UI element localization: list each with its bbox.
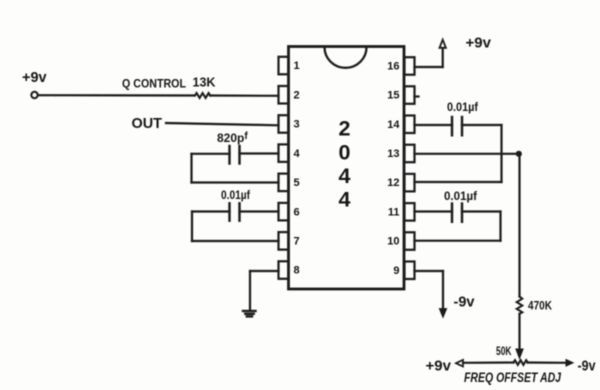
svg-text:1: 1	[294, 60, 300, 72]
node +9V input terminal circle	[31, 92, 37, 98]
wire pin 16 to +9V rail	[415, 66, 443, 68]
pin 11 box	[405, 203, 415, 221]
svg-text:0.01µf: 0.01µf	[447, 102, 478, 114]
wire OUT to pin 3	[166, 123, 279, 125]
U1 value label 2044	[339, 117, 351, 212]
pin 5 box	[279, 174, 289, 192]
wire resistor R2 to wiper arrow	[518, 314, 520, 350]
svg-text:4: 4	[339, 188, 351, 212]
svg-text:15: 15	[387, 90, 399, 102]
svg-text:Q CONTROL: Q CONTROL	[122, 77, 186, 91]
svg-text:13: 13	[387, 148, 399, 160]
arrow head -9V (filled, down)	[439, 309, 446, 318]
pin 3 box	[279, 115, 289, 133]
wire +9v arrow to potentiometer R3	[463, 361, 514, 363]
arrow head right (filled) at -9v	[566, 360, 573, 367]
pin 10 box	[405, 232, 415, 250]
svg-text:470K: 470K	[528, 299, 552, 313]
svg-text:820pf: 820pf	[217, 131, 248, 145]
wire C1 left leg down	[190, 154, 192, 183]
svg-text:9: 9	[393, 265, 399, 277]
wire pin 14 to capacitor C3	[415, 124, 453, 126]
wire pin 8 toward ground	[250, 270, 279, 272]
wire pin 4 to capacitor C1	[240, 152, 279, 154]
pin 15 box	[405, 86, 415, 104]
potentiometer R3 50K body	[514, 360, 528, 365]
wire capacitor C1 to left leg	[192, 153, 230, 155]
wire pin 9 to -9V drop	[415, 270, 444, 272]
svg-text:16: 16	[387, 61, 399, 73]
capacitor C4 0.01uf	[452, 204, 462, 222]
IC U1 2044 body	[289, 47, 405, 290]
svg-text:13K: 13K	[193, 76, 216, 90]
arrow head +9V (open, up)	[440, 40, 446, 48]
capacitor C1 820pf	[230, 146, 240, 164]
pin 9 box	[405, 262, 415, 280]
svg-text:0.01µf: 0.01µf	[444, 191, 477, 203]
svg-text:-9v: -9v	[578, 358, 597, 375]
pin 8 box	[279, 261, 289, 279]
svg-text:2: 2	[339, 117, 351, 141]
pin 12 box	[405, 174, 415, 192]
pin 1 box	[279, 57, 289, 75]
wire pin 13 to node A	[415, 153, 520, 155]
wire C2 left leg to pin 7	[192, 240, 279, 242]
wire potentiometer to -9v arrow	[528, 361, 567, 363]
svg-text:FREQ OFFSET ADJ: FREQ OFFSET ADJ	[464, 370, 561, 385]
svg-text:2: 2	[294, 89, 300, 101]
svg-text:0.01µf: 0.01µf	[221, 190, 250, 202]
wire capacitor C4 to right leg	[462, 210, 501, 212]
svg-text:+9v: +9v	[22, 70, 47, 86]
pin 7 box	[279, 232, 289, 250]
pin 6 box	[279, 203, 289, 221]
svg-text:8: 8	[294, 265, 300, 277]
pin 16 box	[405, 57, 415, 74]
resistor R2 470K	[517, 297, 523, 314]
wire pin 11 to capacitor C4	[415, 210, 453, 212]
svg-text:+9v: +9v	[426, 358, 452, 375]
svg-text:6: 6	[294, 206, 300, 218]
pin 14 box	[405, 116, 415, 134]
wire C4 right leg to pin 10	[415, 240, 501, 242]
svg-text:7: 7	[294, 236, 300, 248]
svg-text:-9v: -9v	[454, 295, 475, 311]
wire down to ground	[249, 271, 251, 310]
svg-text:14: 14	[387, 119, 400, 131]
wire capacitor C2 to left leg	[192, 210, 230, 212]
svg-text:3: 3	[294, 119, 300, 131]
svg-text:0: 0	[339, 141, 351, 165]
pin 2 box	[279, 86, 289, 104]
capacitor C2 0.01uf	[230, 203, 240, 220]
wire C3 right leg to pin 12	[415, 181, 502, 183]
pin 15 stub wire	[415, 95, 419, 97]
svg-text:+9v: +9v	[466, 35, 492, 52]
svg-text:OUT: OUT	[132, 115, 163, 132]
svg-text:11: 11	[388, 206, 400, 218]
wire resistor R1 to pin 2	[210, 94, 278, 97]
svg-text:12: 12	[387, 177, 399, 189]
wire C3 right leg down	[500, 125, 502, 182]
pin 13 box	[405, 145, 415, 163]
svg-text:4: 4	[339, 164, 351, 188]
svg-text:4: 4	[294, 148, 301, 160]
resistor R1 13K	[195, 93, 210, 98]
wire C4 right leg down	[499, 212, 501, 241]
wire terminal to resistor R1	[38, 94, 194, 97]
capacitor C3 0.01uf	[452, 117, 462, 135]
pin 4 box	[279, 144, 289, 162]
wire capacitor C3 to right leg	[462, 124, 502, 126]
wire down to -9V arrow	[442, 271, 444, 310]
svg-text:50K: 50K	[496, 344, 512, 358]
wire up to +9V arrow	[442, 49, 444, 68]
wire C1 left leg to pin 5	[192, 181, 279, 183]
svg-text:5: 5	[294, 177, 300, 189]
wire node A down to resistor R2	[518, 154, 520, 297]
wire pin 6 to capacitor C2	[240, 210, 279, 212]
node A junction dot	[516, 151, 522, 157]
ground	[243, 311, 256, 316]
wiper arrow head (filled, down) into pot R3	[516, 349, 523, 358]
wire C2 left leg down	[191, 212, 193, 242]
arrow head left (open) at +9v end of pot R3	[456, 360, 463, 367]
svg-text:10: 10	[387, 236, 399, 248]
